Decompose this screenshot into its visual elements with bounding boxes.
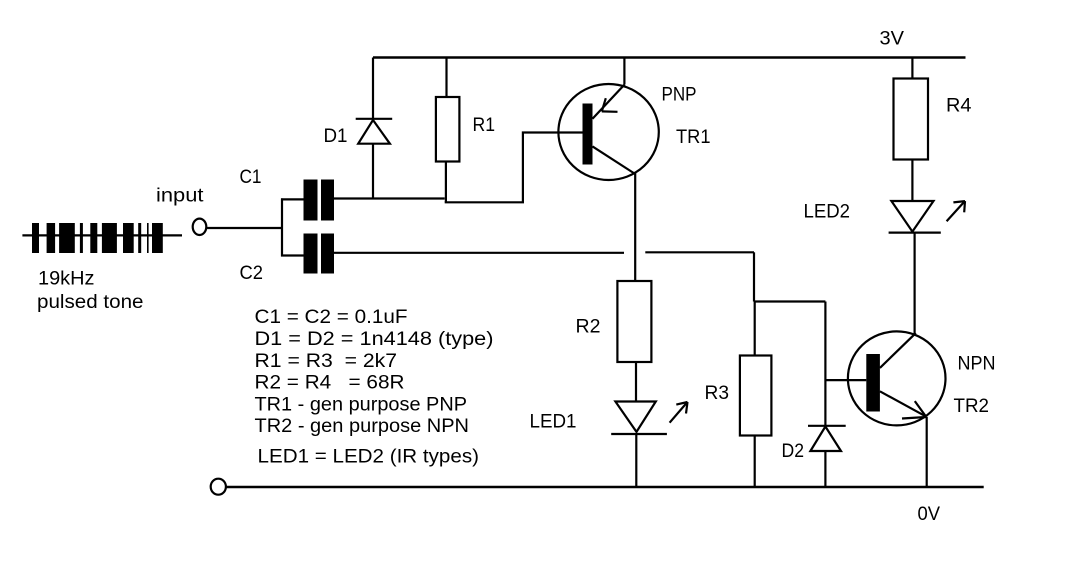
svg-text:D1: D1: [324, 126, 348, 147]
transistor TR2 NPN: [848, 331, 946, 487]
input signal waveform (19kHz pulsed tone): [22, 223, 182, 253]
svg-text:R2: R2: [576, 317, 601, 338]
diode D1: [356, 58, 393, 199]
svg-text:R2 = R4 = 68R: R2 = R4 = 68R: [255, 373, 405, 394]
svg-text:TR1: TR1: [676, 127, 711, 148]
label R3: [705, 383, 730, 404]
svg-text:LED2: LED2: [804, 202, 851, 223]
svg-text:C2: C2: [240, 263, 264, 284]
wire D2 node to TR2 base: [825, 379, 866, 381]
0V rail: [226, 486, 984, 488]
label PNP: [662, 85, 697, 106]
input terminal: [193, 219, 207, 235]
label D2: [782, 441, 805, 462]
wire capacitor junction vertical: [281, 198, 283, 256]
LED LED2: [889, 201, 941, 334]
svg-text:TR2: TR2: [954, 396, 990, 417]
svg-text:0V: 0V: [918, 504, 941, 525]
svg-text:3V: 3V: [880, 29, 905, 50]
label R1: [473, 115, 496, 136]
label input: [156, 186, 204, 207]
wire junction to C2: [281, 254, 305, 256]
svg-text:pulsed tone: pulsed tone: [37, 292, 144, 313]
wire R1 bottom to TR1 base: [445, 133, 583, 203]
capacitor C1: [304, 180, 335, 221]
svg-text:R1: R1: [473, 115, 496, 136]
transistor TR1 PNP: [558, 58, 658, 181]
label NPN: [958, 354, 996, 375]
wire junction to C1: [281, 198, 305, 200]
label LED1: [530, 412, 577, 433]
resistor R3: [740, 302, 772, 488]
svg-text:D2: D2: [782, 441, 805, 462]
component values note: [255, 307, 494, 468]
label LED2: [804, 202, 851, 223]
label R2: [576, 317, 601, 338]
diode D2: [808, 302, 846, 488]
label 19kHz pulsed tone: [37, 269, 144, 314]
label C2: [240, 263, 264, 284]
label TR2: [954, 396, 990, 417]
svg-text:19kHz: 19kHz: [38, 269, 95, 290]
resistor R1: [436, 58, 460, 203]
LED1 light arrow: [670, 402, 688, 423]
resistor R2: [617, 281, 651, 402]
label 3V: [880, 29, 905, 50]
label C1: [240, 167, 262, 188]
svg-text:LED1 = LED2 (IR types): LED1 = LED2 (IR types): [258, 447, 480, 468]
svg-text:C1 = C2 = 0.1uF: C1 = C2 = 0.1uF: [255, 307, 408, 328]
svg-text:R1 = R3 = 2k7: R1 = R3 = 2k7: [255, 351, 398, 372]
svg-text:PNP: PNP: [662, 85, 697, 106]
svg-text:C1: C1: [240, 167, 262, 188]
label R4: [946, 96, 972, 117]
resistor R4: [894, 58, 929, 202]
svg-text:LED1: LED1: [530, 412, 577, 433]
label 0V: [918, 504, 941, 525]
svg-text:D1 = D2 = 1n4148 (type): D1 = D2 = 1n4148 (type): [255, 329, 494, 350]
LED2 light arrow: [947, 201, 965, 221]
svg-text:R4: R4: [946, 96, 972, 117]
svg-text:TR1 - gen purpose PNP: TR1 - gen purpose PNP: [255, 394, 468, 415]
LED LED1: [611, 402, 667, 488]
svg-text:TR2 - gen purpose NPN: TR2 - gen purpose NPN: [255, 416, 470, 437]
wire input terminal to capacitor junction: [207, 227, 283, 229]
0V terminal: [211, 479, 226, 495]
wire C2 to R3 and D2 node: [333, 252, 825, 301]
wire C1 to R1 bottom node: [333, 197, 445, 199]
svg-text:NPN: NPN: [958, 354, 996, 375]
label D1: [324, 126, 348, 147]
label TR1: [676, 127, 711, 148]
3V supply rail: [373, 56, 966, 58]
capacitor C2: [304, 234, 335, 274]
svg-text:R3: R3: [705, 383, 730, 404]
wire TR1 collector down to R2: [634, 173, 636, 281]
svg-text:input: input: [156, 186, 204, 207]
